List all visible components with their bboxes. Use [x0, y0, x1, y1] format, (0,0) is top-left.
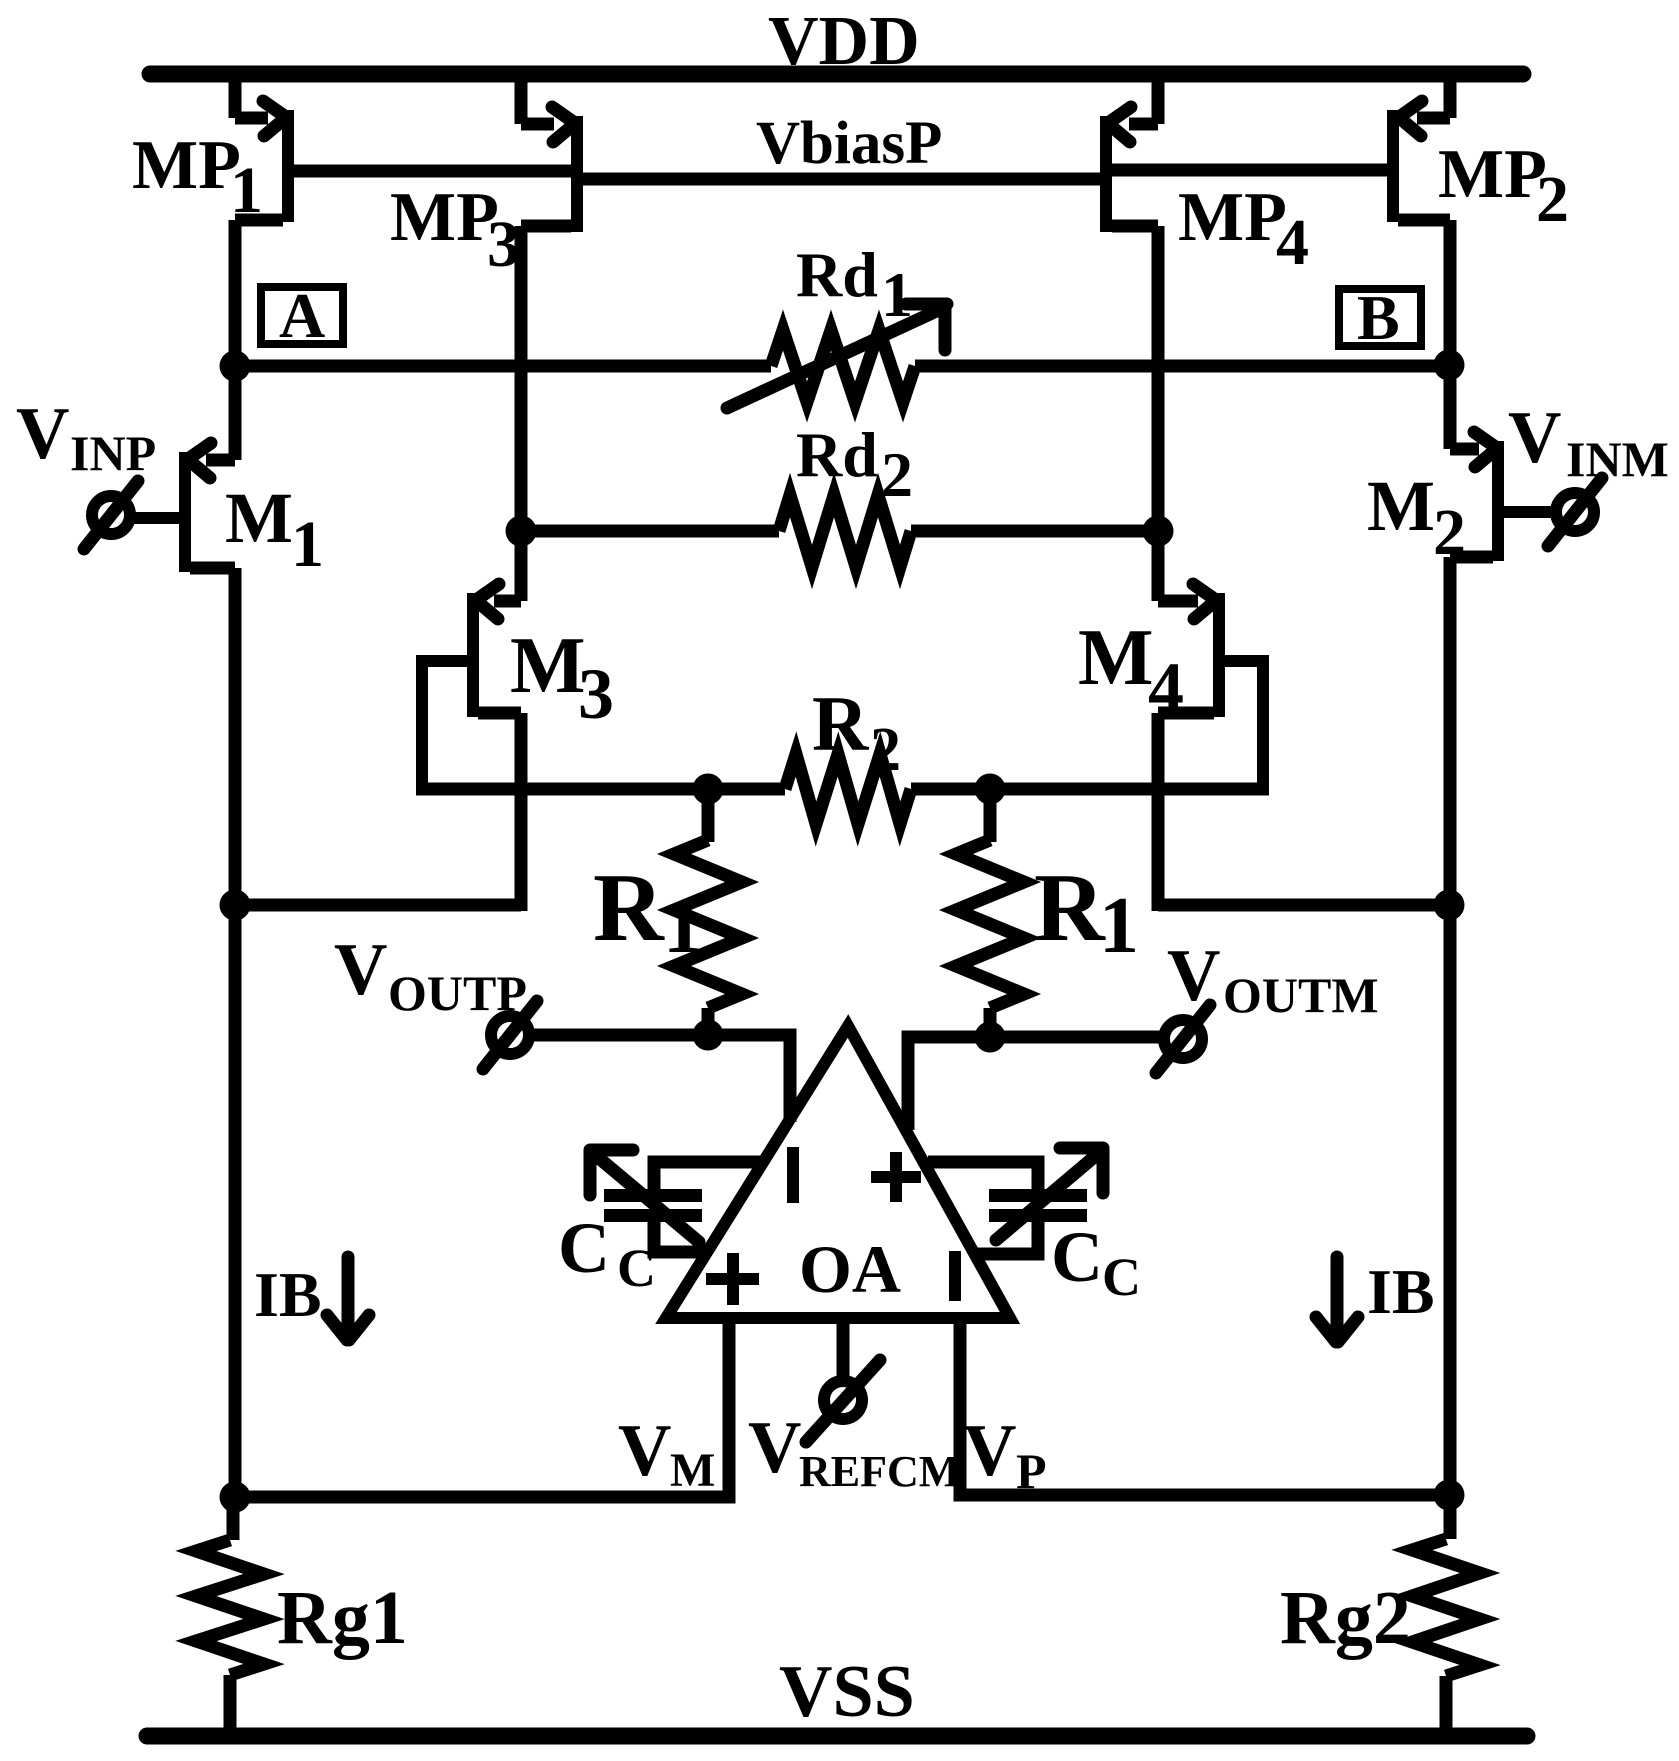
svg-text:REFCM: REFCM — [799, 1447, 960, 1496]
Rg2 label — [1280, 1576, 1411, 1660]
transistor MP1 — [235, 70, 288, 372]
svg-text:VSS: VSS — [779, 1651, 915, 1733]
node A box — [261, 280, 343, 351]
svg-text:IB: IB — [1367, 1256, 1435, 1327]
svg-text:OUTP: OUTP — [388, 965, 527, 1021]
M4 label — [1078, 614, 1184, 728]
resistor Rd1 — [727, 304, 947, 408]
svg-text:V: V — [334, 929, 387, 1011]
VbiasP label — [756, 110, 942, 177]
svg-text:R: R — [1034, 854, 1106, 962]
svg-text:Rg2: Rg2 — [1280, 1576, 1411, 1660]
CC left label — [558, 1208, 656, 1298]
MP3 label — [390, 179, 520, 281]
R1 left label — [593, 854, 703, 970]
wire node A to node B — [235, 360, 1450, 373]
OA minus input top-left — [787, 1147, 799, 1203]
svg-text:V: V — [16, 393, 69, 475]
svg-text:M: M — [510, 622, 586, 710]
wire OA output VM — [235, 1318, 729, 1497]
svg-text:V: V — [618, 1410, 671, 1492]
svg-text:R: R — [812, 680, 870, 767]
node A junction — [220, 351, 251, 382]
OA label — [799, 1231, 901, 1307]
R2 label — [812, 680, 901, 784]
svg-text:VDD: VDD — [768, 3, 920, 80]
Rd1 label — [796, 239, 913, 330]
Rd2 label — [796, 419, 913, 510]
junction VP — [1434, 1480, 1465, 1511]
svg-text:2: 2 — [881, 439, 913, 510]
svg-text:MP: MP — [1178, 179, 1287, 256]
resistor Rd2 — [779, 495, 911, 567]
VOUTM label — [1167, 935, 1379, 1023]
transistor MP2 — [1393, 70, 1450, 372]
resistor Rg1 — [196, 1497, 264, 1734]
svg-text:V: V — [1508, 397, 1561, 479]
junction M1 drain — [220, 890, 251, 921]
junction VOUTP — [693, 1020, 724, 1051]
svg-text:V: V — [963, 1410, 1016, 1492]
junction R1 right top — [975, 774, 1006, 805]
svg-text:3: 3 — [487, 208, 520, 281]
svg-text:1: 1 — [230, 154, 263, 227]
svg-text:2: 2 — [870, 716, 901, 784]
svg-text:1: 1 — [881, 259, 913, 330]
svg-text:M: M — [1367, 466, 1435, 546]
svg-text:MP: MP — [1438, 136, 1547, 213]
svg-text:R: R — [593, 854, 665, 962]
resistor R1 left — [674, 789, 742, 1035]
node B box — [1339, 282, 1421, 353]
IB label right — [1367, 1256, 1435, 1327]
wire VOUTP — [531, 1035, 790, 1122]
IB label left — [254, 1259, 322, 1330]
svg-text:Rg1: Rg1 — [277, 1576, 408, 1660]
svg-text:MP: MP — [390, 179, 499, 256]
wire OA output VP — [960, 1318, 1450, 1495]
svg-text:Rd: Rd — [796, 239, 878, 310]
VINP label — [16, 393, 156, 481]
OA plus input top-right — [871, 1152, 921, 1202]
VINM source symbol — [1548, 478, 1602, 546]
svg-text:IB: IB — [254, 1259, 322, 1330]
wire VbiasP gate line — [290, 170, 1391, 179]
OA plus input bottom-left — [706, 1253, 759, 1305]
svg-text:4: 4 — [1148, 648, 1184, 728]
VP label — [963, 1410, 1047, 1499]
junction Rd2 left — [506, 516, 537, 547]
svg-text:V: V — [748, 1407, 801, 1489]
wire M2 chain down — [1444, 905, 1457, 1495]
transistor M3 — [422, 525, 521, 911]
svg-text:B: B — [1357, 282, 1400, 353]
VREFCM label — [748, 1407, 960, 1496]
wire Rd2 line — [521, 525, 1158, 538]
svg-text:INP: INP — [70, 425, 156, 481]
capacitor CC left — [590, 1150, 762, 1252]
VINM label — [1508, 397, 1669, 487]
MP1 label — [132, 127, 263, 227]
VSS label — [779, 1651, 915, 1733]
VDD label — [768, 3, 920, 80]
op-amp OA — [666, 1026, 1010, 1318]
svg-text:OA: OA — [799, 1231, 901, 1307]
capacitor CC right — [928, 1148, 1103, 1254]
M3 label — [510, 622, 614, 734]
VDD rail — [150, 66, 1523, 83]
resistor R1 right — [956, 789, 1024, 1037]
svg-text:C: C — [558, 1208, 610, 1288]
wire gate node right (M4 gate) — [911, 783, 1269, 796]
svg-text:C: C — [1102, 1247, 1141, 1307]
transistor M1 — [134, 360, 235, 911]
junction M2 drain — [1434, 890, 1465, 921]
resistor Rg2 — [1412, 1495, 1480, 1734]
svg-text:1: 1 — [291, 508, 324, 581]
VINP source symbol — [84, 481, 138, 549]
svg-text:MP: MP — [132, 127, 241, 204]
svg-text:3: 3 — [578, 654, 614, 734]
VSS rail — [147, 1728, 1527, 1745]
svg-text:C: C — [617, 1238, 656, 1298]
svg-text:A: A — [279, 280, 325, 351]
R1 right label — [1034, 854, 1139, 970]
wire M1 drain to M3 drain — [235, 899, 521, 912]
junction VM — [220, 1482, 251, 1513]
transistor MP4 — [1106, 70, 1158, 537]
OA minus input bottom-right — [949, 1251, 961, 1301]
M1 label — [225, 478, 324, 581]
svg-text:2: 2 — [1536, 163, 1569, 236]
svg-text:P: P — [1016, 1443, 1047, 1499]
wire M1 chain down — [229, 905, 242, 1497]
svg-text:OUTM: OUTM — [1223, 967, 1379, 1023]
svg-text:Rd: Rd — [796, 419, 878, 490]
node B junction — [1434, 350, 1465, 381]
resistor R2 — [785, 754, 911, 824]
CC right label — [1051, 1217, 1141, 1307]
wire OA output VREFCM — [837, 1318, 850, 1380]
M2 label — [1367, 466, 1466, 569]
svg-text:VbiasP: VbiasP — [756, 110, 942, 177]
svg-text:1: 1 — [663, 882, 703, 970]
transistor MP3 — [521, 70, 577, 537]
IB arrow right — [1316, 1257, 1358, 1342]
svg-text:INM: INM — [1566, 431, 1669, 487]
wire gate node left (M3 gate / R2 / R1) — [416, 783, 785, 796]
VM label — [618, 1410, 715, 1497]
svg-text:V: V — [1167, 935, 1220, 1017]
VOUTM source symbol — [1156, 1005, 1210, 1073]
svg-text:M: M — [1078, 614, 1154, 702]
wire VOUTM — [908, 1037, 1161, 1130]
svg-text:M: M — [670, 1444, 715, 1497]
MP4 label — [1178, 179, 1309, 279]
wire M4 drain to M2 drain — [1158, 899, 1450, 912]
junction VOUTM — [975, 1022, 1006, 1053]
svg-text:M: M — [225, 478, 293, 558]
Rg1 label — [277, 1576, 408, 1660]
transistor M4 — [1158, 525, 1263, 911]
junction Rd2 right — [1143, 516, 1174, 547]
VOUTP source symbol — [483, 1001, 537, 1069]
svg-text:4: 4 — [1276, 206, 1309, 279]
VOUTP label — [334, 929, 527, 1021]
svg-text:C: C — [1051, 1217, 1103, 1297]
junction R1 left top — [693, 774, 724, 805]
svg-text:1: 1 — [1099, 882, 1139, 970]
MP2 label — [1438, 136, 1569, 236]
transistor M2 — [1450, 360, 1553, 911]
IB arrow left — [327, 1257, 369, 1340]
svg-text:2: 2 — [1433, 496, 1466, 569]
VREFCM source symbol — [806, 1360, 880, 1442]
